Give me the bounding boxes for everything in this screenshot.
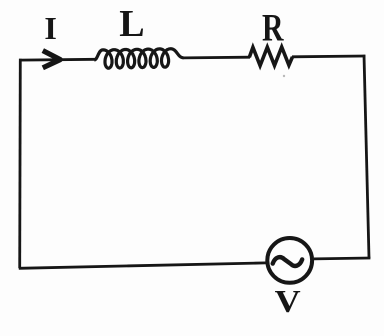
- wire left vertical: [18, 59, 21, 268]
- wire bottom left segment: [19, 263, 266, 268]
- svg-text:V: V: [275, 283, 301, 319]
- wire bottom right segment: [314, 257, 371, 261]
- wire right vertical: [364, 55, 369, 258]
- inductor L coil: [94, 49, 183, 68]
- svg-text:L: L: [119, 3, 144, 45]
- wire R to top-right corner: [292, 55, 365, 59]
- wire top left segment: [19, 58, 96, 62]
- current arrow I: [43, 51, 60, 68]
- svg-text:R: R: [262, 7, 284, 50]
- AC source V circle: [267, 238, 312, 283]
- resistor R zigzag: [249, 47, 292, 66]
- svg-text:I: I: [44, 10, 56, 46]
- AC source sine tilde: [273, 257, 303, 266]
- wire between L and R: [183, 56, 250, 60]
- stray scan dot: [283, 75, 285, 77]
